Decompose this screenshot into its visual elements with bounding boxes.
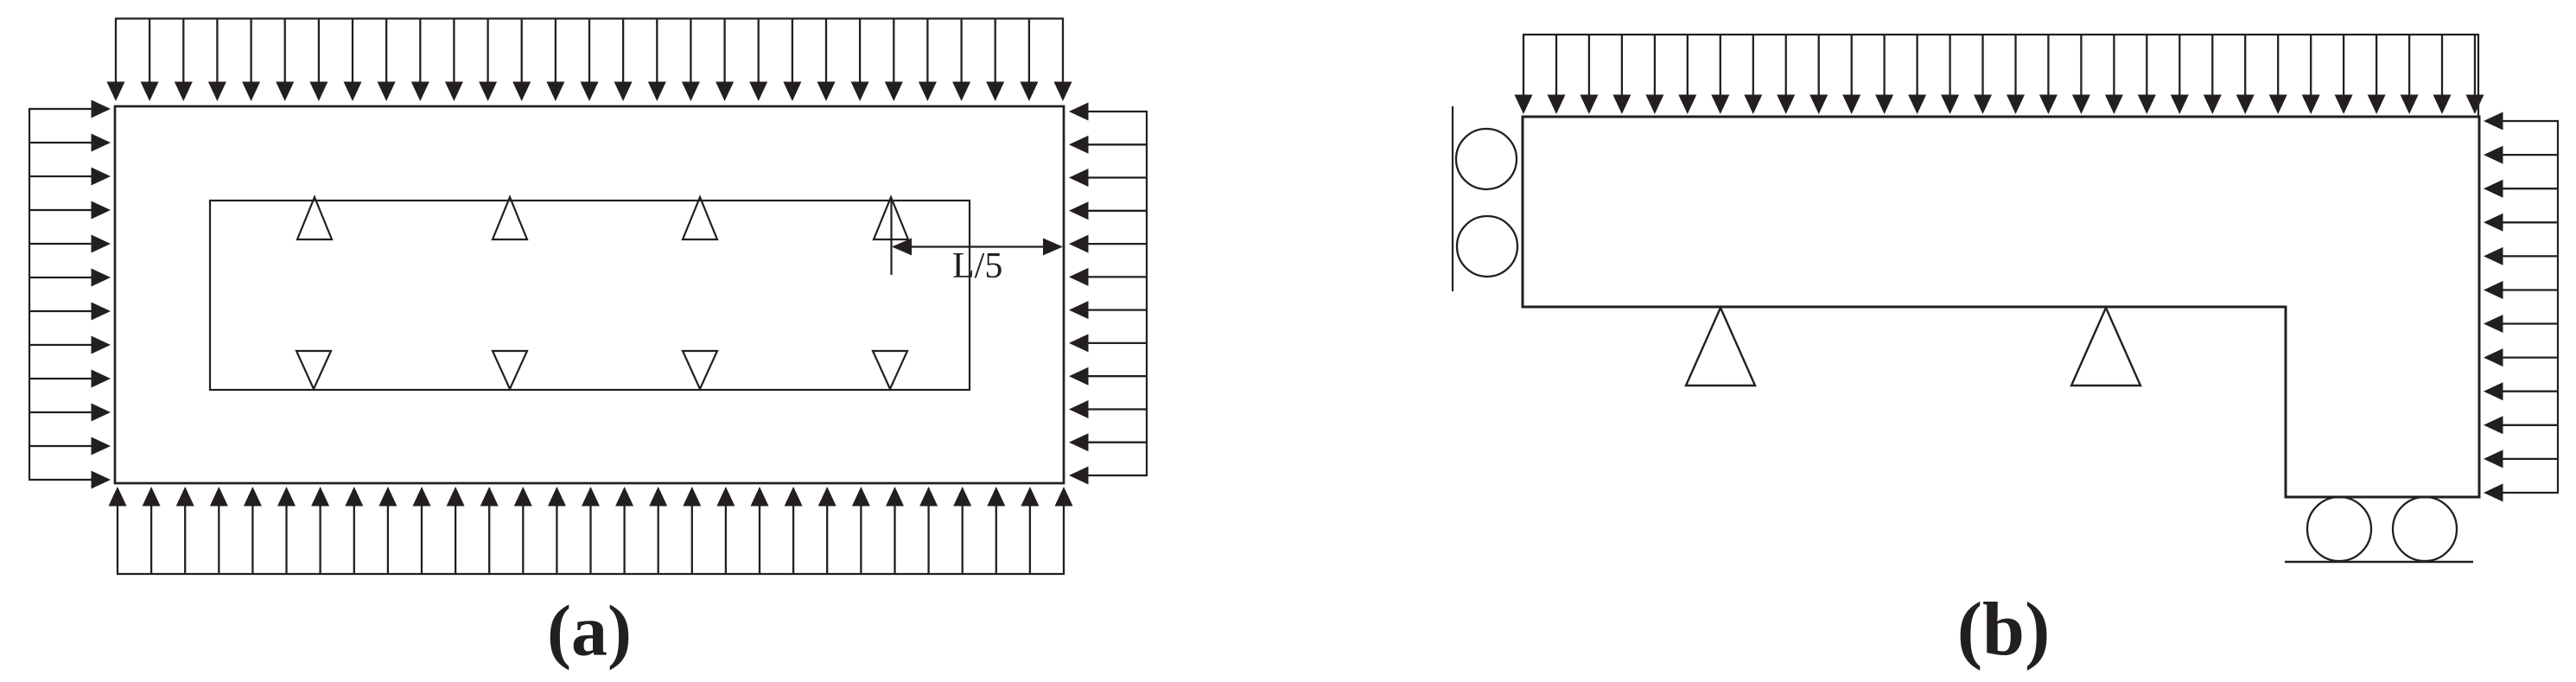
support triangle top row #1 (a) — [297, 197, 332, 239]
inner rectangle (a) — [210, 201, 970, 390]
pin support triangle left (b) — [1686, 308, 1755, 386]
support triangle top row #3 (a) — [683, 197, 717, 239]
beam outline L-shape (b) — [1523, 117, 2479, 497]
dimension line L/5 (a) — [892, 239, 1063, 256]
svg-text:(a): (a) — [547, 591, 632, 672]
pin support triangle right (b) — [2071, 308, 2140, 386]
distributed load left edge (a): tail line + 12 right arrows — [29, 100, 111, 489]
support triangle bottom row #3 (a) — [683, 351, 717, 389]
dimension tick line through 4th top triangle (a) — [890, 198, 892, 275]
distributed load top edge (b): header line + 30 down arrows + right closure — [1515, 35, 2484, 116]
left support wall line (b) — [1452, 106, 1453, 291]
distributed load right edge (a): tail line + 12 left arrows — [1069, 103, 1147, 485]
support triangle top row #2 (a) — [493, 197, 527, 239]
ground line under bottom rollers (b) — [2285, 561, 2473, 564]
distributed load right edge (b): tail line + 12 left arrows — [2484, 112, 2558, 502]
support triangle bottom row #2 (a) — [493, 351, 527, 389]
support triangle top row #4 (a) — [874, 197, 908, 239]
svg-text:L/5: L/5 — [952, 246, 1002, 286]
svg-text:(b): (b) — [1957, 588, 2051, 672]
bottom roller circle left (b) — [2307, 497, 2371, 561]
outer plate rectangle (a) — [115, 106, 1064, 483]
distributed load bottom edge (a): footer line + 29 up arrows — [109, 487, 1073, 574]
left roller circle lower (b) — [1457, 216, 1517, 277]
left roller circle upper (b) — [1456, 129, 1517, 189]
bottom roller circle right (b) — [2393, 497, 2457, 561]
distributed load top edge (a): header line + 29 down arrows — [107, 19, 1072, 102]
support triangle bottom row #4 (a) — [873, 351, 907, 389]
support triangle bottom row #1 (a) — [296, 351, 331, 389]
